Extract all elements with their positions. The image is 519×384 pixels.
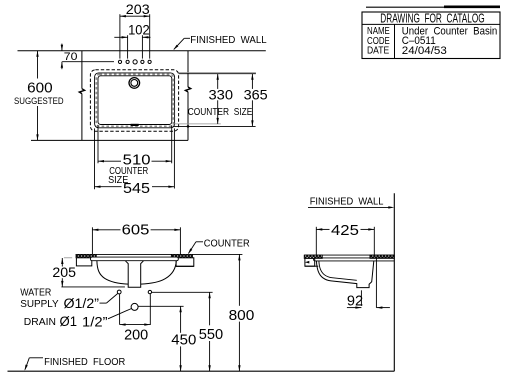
faucet holes line: [62, 61, 114, 63]
title block row NAME: [367, 26, 497, 38]
basin bowl outline (front view): [97, 261, 176, 284]
svg-text:FINISHED WALL: FINISHED WALL: [310, 196, 384, 208]
svg-text:SUPPLY: SUPPLY: [20, 299, 59, 310]
outlet tick mark at bowl bottom: [131, 124, 139, 126]
extension lines right of basin (330/365): [174, 73, 256, 128]
title block box: [362, 12, 500, 59]
svg-text:24/04/53: 24/04/53: [402, 45, 447, 57]
drain tailpiece (front view): [125, 261, 143, 288]
svg-text:205: 205: [52, 264, 76, 280]
label FINISHED FLOOR with leader: [25, 356, 126, 370]
basin bowl outline (side view): [317, 261, 374, 288]
counter hatched section right (front): [171, 254, 192, 257]
finished floor line: [8, 370, 395, 372]
basin rim (front view): [91, 257, 179, 261]
svg-text:92: 92: [347, 294, 363, 310]
reference line drain to 450: [138, 305, 183, 307]
svg-text:70: 70: [64, 51, 78, 63]
counter cutout 545 outline (rounded rect): [95, 73, 175, 128]
svg-text:425: 425: [331, 223, 359, 239]
vertical lines from supply points: [120, 294, 151, 325]
counter support block left (front): [76, 258, 91, 266]
label FINISHED WALL (side) with arrow line: [308, 196, 394, 209]
svg-text:450: 450: [171, 333, 196, 349]
svg-text:SUGGESTED: SUGGESTED: [14, 96, 64, 106]
basin inner rim hidden line (gray dotted rounded rect): [96, 74, 173, 126]
dimension 510 COUNTER SIZE: [98, 152, 172, 186]
dimension 545: [95, 181, 175, 197]
dimension 203: [120, 1, 150, 59]
label FINISHED WALL (plan) with leader: [173, 34, 266, 50]
extension lines below basin (510/545): [95, 125, 175, 189]
svg-text:102: 102: [128, 22, 150, 38]
reference line supply to 550: [152, 291, 213, 293]
overflow hole (double circle): [129, 78, 140, 89]
dimension 102: [114, 22, 150, 59]
svg-text:605: 605: [122, 223, 150, 239]
dimension 800: [229, 254, 255, 371]
label DRAIN 1 1/2 inch with leader: [24, 309, 132, 330]
counter bottom edge (plan): [31, 139, 188, 141]
svg-text:WATER: WATER: [20, 288, 51, 299]
svg-text:FINISHED WALL: FINISHED WALL: [190, 34, 266, 46]
frame edge line above title block: [366, 6, 500, 8]
dimension 70: [61, 44, 78, 70]
svg-text:545: 545: [123, 181, 150, 197]
counter top line (side view): [304, 254, 394, 256]
reference line counter to 800: [0, 0, 1, 1]
dimension 600 SUGGESTED: [14, 51, 64, 141]
svg-text:COUNTER SIZE: COUNTER SIZE: [188, 106, 253, 118]
counter hatched section left (side): [304, 255, 322, 258]
basin bowl edge (inner solid rounded rect): [98, 76, 172, 125]
dimension 92: [347, 258, 390, 310]
counter left edge with break symbol (plan): [79, 51, 84, 141]
faucet hole circles: [118, 60, 151, 64]
svg-text:DRAIN: DRAIN: [24, 316, 56, 328]
svg-text:550: 550: [199, 327, 223, 343]
dimension 330: [209, 74, 234, 124]
dimension 550: [199, 292, 223, 371]
dimension 450: [171, 306, 196, 371]
counter hatched section right (side): [370, 255, 394, 258]
wall line (plan finished wall): [18, 50, 266, 52]
svg-text:COUNTER: COUNTER: [204, 237, 250, 249]
svg-text:Ø1: Ø1: [60, 314, 78, 329]
dimension 200: [120, 323, 151, 343]
svg-text:Ø1/2”: Ø1/2”: [64, 296, 100, 311]
dimension 205: [52, 258, 125, 287]
water supply stub circles: [117, 290, 151, 294]
wall line (side view): [393, 193, 395, 371]
svg-text:1/2”: 1/2”: [82, 314, 108, 329]
counter support block (side) with small arrow: [305, 258, 319, 266]
svg-text:800: 800: [229, 308, 255, 324]
title block header DRAWING FOR CATALOG: [380, 12, 484, 26]
svg-text:600: 600: [27, 80, 52, 96]
drain outlet circle (front): [131, 303, 138, 310]
title block row CODE: [367, 35, 436, 47]
svg-text:365: 365: [244, 86, 268, 102]
dimension 425: [316, 223, 374, 258]
counter hatched section left (front): [76, 254, 96, 257]
svg-text:DRAWING FOR CATALOG: DRAWING FOR CATALOG: [380, 12, 484, 26]
label COUNTER SIZE (plan right): [188, 106, 253, 118]
title block row DATE: [367, 45, 447, 57]
svg-text:200: 200: [124, 327, 148, 343]
basin rim (side view): [314, 258, 395, 261]
counter support block right (front): [176, 258, 194, 267]
label WATER SUPPLY 1/2 inch with leader: [20, 288, 118, 311]
svg-text:DATE: DATE: [367, 46, 389, 57]
svg-text:330: 330: [209, 86, 234, 102]
counter top line (front view): [76, 253, 243, 255]
basin outer rim hidden outline (dashed rounded rect): [90, 70, 178, 131]
dimension 605: [92, 223, 180, 257]
svg-text:203: 203: [126, 1, 150, 17]
label COUNTER with leader (front): [188, 237, 250, 254]
counter right edge with break symbol (plan): [185, 51, 190, 141]
dimension 365: [244, 74, 268, 127]
svg-text:FINISHED FLOOR: FINISHED FLOOR: [44, 356, 126, 368]
